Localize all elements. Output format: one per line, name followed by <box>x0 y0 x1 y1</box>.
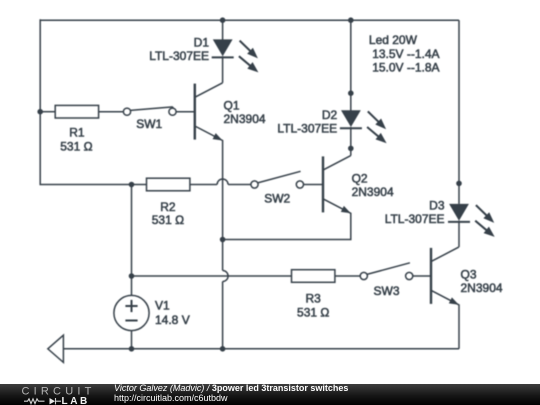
svg-text:D2: D2 <box>322 108 338 122</box>
wire left rail down to R2 row <box>40 19 131 184</box>
wire Q2 emitter return to emitter bus <box>223 213 351 240</box>
svg-text:R1: R1 <box>69 125 85 139</box>
wire V1 branch vertical <box>131 185 133 296</box>
CircuitLab logo <box>0 384 100 405</box>
wire D2 anode from top rail <box>350 20 352 111</box>
wire Q3 emitter to bottom rail <box>458 304 460 349</box>
wire R3 row from V1 branch <box>132 275 292 277</box>
LED D3 <box>448 204 470 247</box>
wire hop to SW2 <box>228 184 251 186</box>
switch SW3 <box>360 263 413 280</box>
node junction top rail / D1 <box>220 17 226 23</box>
wire R3 to SW3 <box>335 275 360 277</box>
switch SW2 <box>251 171 304 188</box>
wire D1 anode from top rail <box>222 20 224 40</box>
node wire joint above D3 <box>456 181 462 187</box>
node wire joint below D2 <box>348 146 354 152</box>
resistor R1 <box>55 105 98 118</box>
wire R1 row left segment <box>40 111 55 113</box>
wire hop over Q1 emitter line <box>217 179 228 185</box>
node wire joint above D2 <box>348 90 354 96</box>
wire R1 to SW1 <box>99 111 124 113</box>
svg-text:Q3: Q3 <box>461 267 477 281</box>
svg-text:LTL-307EE: LTL-307EE <box>149 49 209 63</box>
wire SW3 to Q3 base <box>413 275 431 277</box>
resistor R3 <box>292 270 335 283</box>
svg-text:531 Ω: 531 Ω <box>152 213 184 227</box>
wire R2 row left segment <box>132 184 147 186</box>
wire SW1 to Q1 base <box>176 111 195 113</box>
wire R2 to hop <box>190 184 217 186</box>
svg-text:R3: R3 <box>306 292 322 306</box>
svg-text:LTL-307EE: LTL-307EE <box>385 212 445 226</box>
wire V1 to bottom rail <box>131 331 133 349</box>
LED D3 light arrows <box>475 205 495 237</box>
svg-text:V1: V1 <box>155 299 170 313</box>
voltage source V1 <box>114 295 149 330</box>
ground flag <box>48 335 64 362</box>
svg-text:LAB: LAB <box>62 396 90 405</box>
LED D2 light arrows <box>367 111 387 143</box>
svg-text:531 Ω: 531 Ω <box>60 139 92 153</box>
node junction emitter bus / Q2 return <box>220 237 226 243</box>
wire Q1 emitter down to bottom rail (broken at R3-row hop) <box>222 140 224 271</box>
svg-text:2N3904: 2N3904 <box>461 281 503 295</box>
LED D2 <box>340 110 362 155</box>
LED D1 light arrows <box>239 41 259 73</box>
svg-text:SW2: SW2 <box>264 192 290 206</box>
svg-text:D3: D3 <box>429 199 445 213</box>
wire right rail from top rail to D3 <box>458 20 460 204</box>
svg-text:D1: D1 <box>194 36 210 50</box>
wire hop of emitter bus around R3 row <box>223 271 229 282</box>
footer bar <box>0 384 540 405</box>
wire bottom rail <box>63 348 459 350</box>
wire top rail <box>40 19 459 21</box>
svg-text:R2: R2 <box>160 200 176 214</box>
svg-text:2N3904: 2N3904 <box>352 185 394 199</box>
wire SW2 to Q2 base <box>304 184 324 186</box>
transistor Q2 <box>323 156 351 214</box>
switch SW1 <box>123 107 176 115</box>
node junction V1 branch / R3 row <box>129 273 135 279</box>
svg-text:15.0V --1.8A: 15.0V --1.8A <box>372 61 439 75</box>
svg-text:13.5V --1.4A: 13.5V --1.4A <box>372 47 439 61</box>
svg-text:SW3: SW3 <box>373 284 399 298</box>
footer attribution text <box>114 384 348 404</box>
svg-text:531 Ω: 531 Ω <box>297 305 329 319</box>
node junction top rail / D2 branch <box>348 17 354 23</box>
LED D1 <box>212 39 234 82</box>
node junction R2 row / V1 branch <box>129 182 135 188</box>
svg-text:2N3904: 2N3904 <box>224 112 266 126</box>
transistor Q3 <box>431 247 459 305</box>
svg-text:Q1: Q1 <box>224 99 240 113</box>
svg-text:LTL-307EE: LTL-307EE <box>277 121 337 135</box>
svg-text:Q2: Q2 <box>352 171 368 185</box>
node junction bottom rail / emitter bus <box>220 346 226 352</box>
node junction left rail / R1 row <box>37 109 43 115</box>
node junction bottom rail / V1 <box>129 346 135 352</box>
transistor Q1 <box>195 83 223 141</box>
svg-text:Led 20W: Led 20W <box>369 33 418 47</box>
resistor R2 <box>147 178 190 191</box>
svg-text:SW1: SW1 <box>136 117 162 131</box>
svg-text:14.8 V: 14.8 V <box>155 313 190 327</box>
